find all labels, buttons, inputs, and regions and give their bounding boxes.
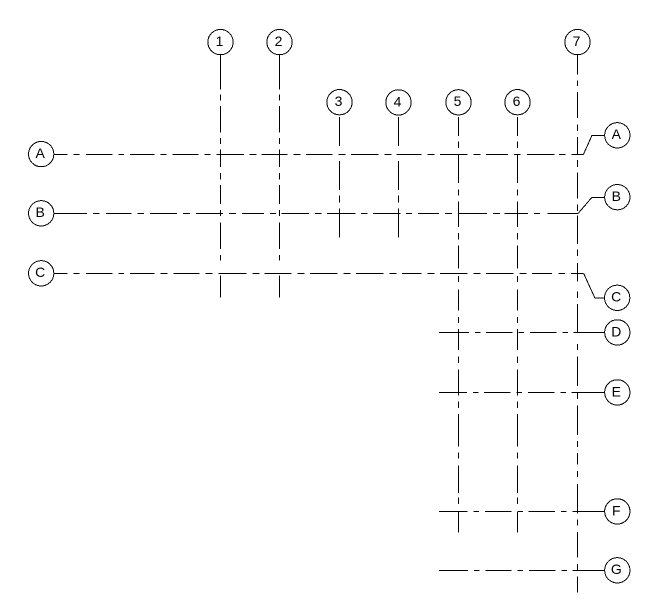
grid bubble B left	[29, 201, 54, 226]
grid bubble 7	[565, 29, 590, 54]
svg-text:G: G	[611, 561, 622, 577]
grid bubble F right	[605, 499, 630, 524]
svg-text:C: C	[611, 289, 621, 305]
horizontal grid line E	[439, 392, 604, 394]
grid bubble E right	[605, 380, 630, 405]
grid line B right elbow	[578, 197, 605, 213]
vertical grid line 7	[577, 55, 579, 592]
svg-text:E: E	[612, 383, 621, 399]
grid line A right elbow	[583, 135, 604, 154]
horizontal grid line F	[439, 511, 604, 513]
grid line C right elbow	[584, 274, 604, 298]
svg-text:3: 3	[335, 93, 343, 109]
svg-text:A: A	[612, 126, 622, 142]
svg-text:6: 6	[513, 93, 521, 109]
horizontal grid line D	[439, 332, 604, 334]
grid bubble C left	[29, 261, 54, 286]
svg-text:1: 1	[216, 33, 224, 49]
vertical grid line 6	[517, 117, 519, 533]
svg-text:C: C	[35, 264, 45, 280]
grid bubble 3	[327, 90, 352, 115]
grid bubble A left	[29, 141, 54, 166]
grid bubble B right	[605, 185, 630, 210]
grid bubble 6	[505, 90, 530, 115]
svg-text:5: 5	[454, 93, 462, 109]
vertical grid line 5	[458, 117, 460, 533]
vertical grid line 4	[398, 117, 400, 238]
grid bubble 2	[267, 29, 292, 54]
grid bubble G right	[605, 558, 630, 583]
svg-text:B: B	[36, 204, 45, 220]
vertical grid line 1	[220, 55, 222, 297]
grid bubble C right	[605, 285, 630, 310]
svg-text:4: 4	[394, 93, 402, 109]
svg-text:2: 2	[275, 33, 283, 49]
vertical grid line 3	[339, 117, 341, 238]
svg-text:D: D	[611, 323, 621, 339]
vertical grid line 2	[279, 55, 281, 297]
svg-text:B: B	[612, 188, 621, 204]
grid bubble D right	[605, 320, 630, 345]
grid bubble 4	[386, 90, 411, 115]
svg-text:F: F	[612, 502, 621, 518]
grid bubble A right	[605, 123, 630, 148]
grid bubble 5	[446, 90, 471, 115]
horizontal grid line B	[54, 213, 578, 215]
horizontal grid line G	[439, 570, 604, 572]
svg-text:7: 7	[573, 33, 581, 49]
svg-text:A: A	[36, 145, 46, 161]
horizontal grid line A	[54, 154, 583, 156]
horizontal grid line C	[54, 273, 583, 275]
grid bubble 1	[208, 29, 233, 54]
